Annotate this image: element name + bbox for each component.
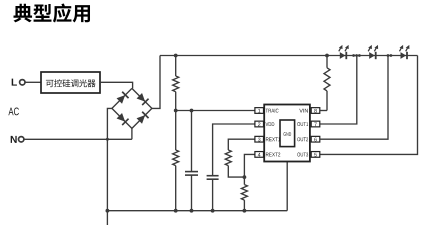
wire REXT1 pin3 (228, 139, 255, 150)
wire OUT1 tap (320, 56, 357, 125)
wire (212, 179, 214, 211)
junction N crossing (106, 138, 109, 141)
junction Rext2 bottom (243, 209, 247, 213)
pin label TRAIC (266, 109, 268, 113)
wire bridge right up (152, 56, 160, 109)
wire bridge left to bottom rail (107, 108, 112, 225)
LED D3 (401, 52, 407, 59)
wire VIN pin8 (320, 110, 327, 112)
resistor Rext2 (241, 185, 247, 201)
wire REXT2 pin4 (244, 154, 255, 184)
wire (191, 111, 193, 172)
wire GND (286, 147, 288, 211)
wire Rext1 bottom (228, 166, 244, 178)
wire (175, 111, 177, 151)
pin label OUT3 (297, 153, 300, 157)
wire (326, 56, 328, 68)
bridge diode bottom-left (117, 113, 126, 122)
GND pad box (280, 120, 295, 147)
wire N to bridge bottom (24, 138, 132, 140)
node TRIAC net (174, 109, 178, 113)
wire OUT3 tap (320, 56, 418, 155)
series dots after D1 (352, 54, 355, 57)
bridge diode bottom-right (137, 115, 146, 124)
bottom rail wire (107, 210, 287, 212)
pin label REXT1 (266, 137, 269, 141)
junction Rext join (243, 175, 247, 179)
wire (175, 92, 177, 111)
label AC (8, 108, 13, 116)
junction R3 top (325, 54, 329, 58)
pin label VDD (266, 122, 269, 126)
wire (191, 175, 193, 211)
junction bottom rail left (106, 209, 110, 213)
wire TRIAC pin1 (176, 110, 255, 112)
pin 5 box (311, 152, 320, 158)
wire VDD pin2 to C2 (213, 124, 255, 175)
LED D1 (340, 52, 346, 59)
wire L to dimmer (25, 81, 41, 83)
series dots after D2 (387, 54, 390, 57)
pin label OUT1 (297, 122, 300, 126)
capacitor C1 (185, 171, 198, 173)
capacitor C2 (207, 175, 219, 177)
wire bridge bottom down (131, 128, 133, 139)
terminal L (12, 79, 17, 86)
bridge diode top-right (137, 93, 146, 102)
pin 2 box (255, 121, 264, 127)
wire (243, 200, 245, 211)
bridge diode top-left (117, 95, 126, 104)
pin 3 box (255, 136, 264, 142)
resistor Rext1 (225, 150, 231, 166)
terminal N (11, 136, 17, 143)
bridge rectifier BD1 (112, 88, 152, 128)
pin label REXT2 (266, 153, 269, 157)
junction C1 bottom (190, 209, 194, 213)
wire (326, 91, 328, 111)
pin 8 box (311, 108, 320, 114)
junction cap C1 tap (190, 109, 194, 113)
pin 1 box (255, 108, 264, 114)
pin 4 box (255, 152, 264, 158)
pin 6 box (311, 136, 320, 142)
pin 7 box (311, 121, 320, 127)
node top bus R1 (174, 54, 178, 58)
junction R2 bottom (174, 209, 178, 213)
LED D2 (369, 52, 375, 59)
pin label VIN (299, 109, 303, 113)
wire (175, 56, 177, 77)
resistor R1 (173, 76, 179, 92)
wire dimmer to bridge top (100, 82, 133, 88)
pin label OUT2 (297, 137, 300, 141)
title 典型应用 (14, 4, 33, 23)
op-amp U1 LED driver IC (264, 105, 310, 162)
top bus wire (160, 55, 418, 57)
wire (175, 166, 177, 211)
resistor R2 (173, 150, 179, 166)
wire OUT2 tap (320, 56, 388, 140)
dimmer box 可控硅调光器 (41, 72, 100, 93)
resistor R3 VIN (324, 68, 330, 91)
junction C2 bottom (211, 209, 215, 213)
